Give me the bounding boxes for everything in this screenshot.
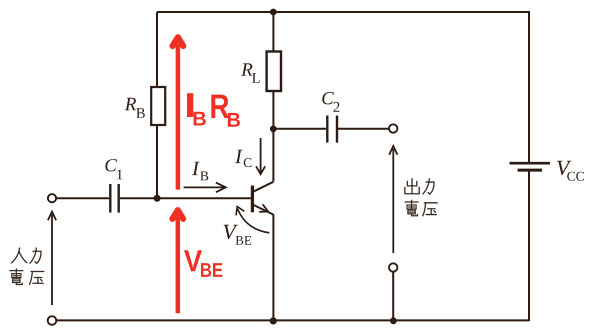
wire base node to transistor base xyxy=(157,197,251,199)
arrow output voltage (up) xyxy=(389,146,397,253)
wire output lower terminal to bottom rail xyxy=(392,272,394,321)
node collector top junction dot xyxy=(270,9,277,16)
red arrow IB RB (up) xyxy=(173,37,184,189)
node collector-C2 junction dot xyxy=(270,125,277,132)
label C2 xyxy=(322,92,339,112)
wire input terminal to C1 xyxy=(56,197,109,199)
wire transistor emitter down to bottom rail xyxy=(272,214,274,320)
label IC xyxy=(235,150,251,167)
capacitor C1 plates xyxy=(110,184,118,213)
transistor Q1 emitter diagonal xyxy=(253,205,274,215)
wire right rail upper (to battery) xyxy=(528,11,530,162)
transistor Q1 emitter arrowhead xyxy=(259,204,268,212)
wire collector node to C2 xyxy=(273,128,326,130)
label RB xyxy=(125,98,145,118)
node base junction dot xyxy=(154,195,161,202)
red label VBE xyxy=(184,250,222,277)
wire C2 to output terminal xyxy=(338,128,389,130)
wire right rail lower (from battery) xyxy=(528,171,530,321)
arrow input voltage (up) xyxy=(48,212,56,305)
label VBE black xyxy=(224,225,252,245)
transistor Q1 base bar xyxy=(251,186,254,213)
output terminal lower circle xyxy=(389,263,397,271)
wire left branch upper (top rail to RB) xyxy=(156,12,158,87)
resistor RB xyxy=(151,87,165,125)
node output bottom junction dot xyxy=(390,317,397,324)
input terminal upper circle xyxy=(48,194,56,202)
battery VCC short plate xyxy=(518,169,543,172)
battery VCC long plate xyxy=(510,162,551,165)
label C1 xyxy=(105,159,122,179)
label IB xyxy=(192,162,208,181)
arrow base current IB (right) xyxy=(184,183,226,193)
input terminal lower circle xyxy=(48,316,57,325)
wire C1 to base node xyxy=(120,197,157,199)
wire RL to collector node xyxy=(272,91,274,129)
arrow collector current IC (down) xyxy=(256,138,265,174)
node emitter bottom junction dot xyxy=(270,317,277,324)
label VCC xyxy=(557,161,584,181)
label 入力電圧 input voltage xyxy=(10,248,44,284)
wire top rail xyxy=(157,11,529,13)
label RL xyxy=(241,63,260,82)
wire bottom rail xyxy=(56,319,529,321)
transistor Q1 collector diagonal xyxy=(253,182,274,192)
red arrow VBE (up) xyxy=(173,210,184,313)
wire collector branch top (top rail to RL) xyxy=(272,12,274,52)
label 出力電圧 output voltage xyxy=(405,179,437,216)
resistor RL xyxy=(267,52,281,92)
wire collector node down to transistor collector xyxy=(272,129,274,182)
arrow VBE curved xyxy=(236,207,269,233)
wire left branch lower (RB to base node) xyxy=(156,125,158,198)
red label IB RB xyxy=(187,93,240,127)
output terminal upper circle xyxy=(389,124,397,132)
capacitor C2 plates xyxy=(327,116,337,143)
